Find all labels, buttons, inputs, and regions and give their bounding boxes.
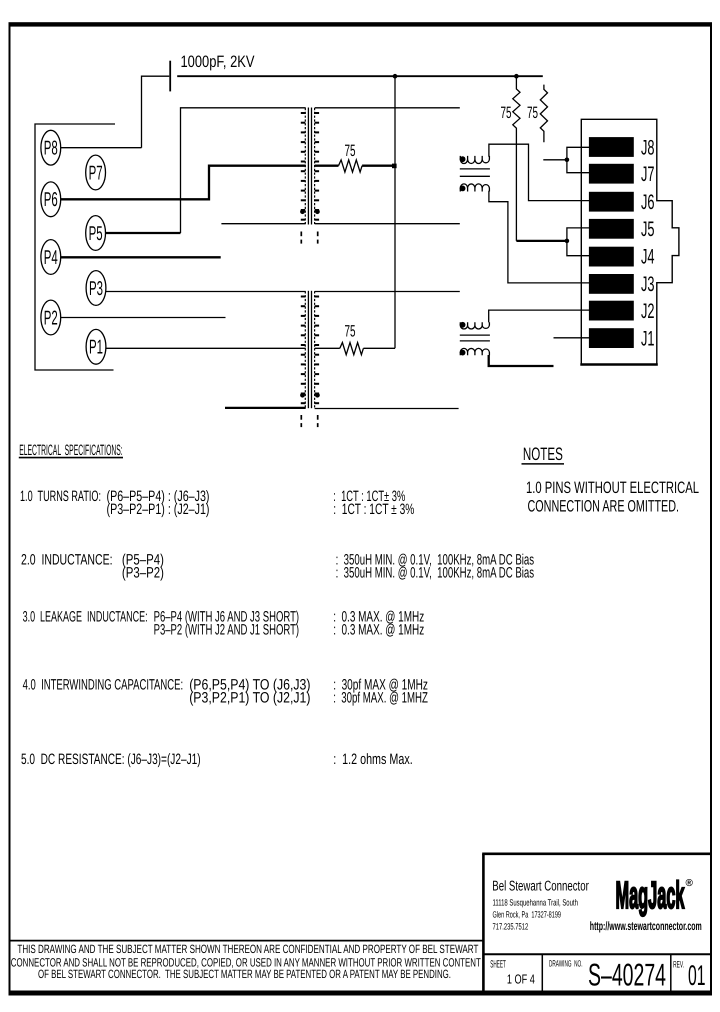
svg-text:REV.: REV.	[673, 960, 684, 970]
wire P5 riser vertical	[181, 108, 306, 233]
svg-text:4.0 INTERWINDING CAPACITANCE:: 4.0 INTERWINDING CAPACITANCE:	[23, 676, 184, 693]
svg-text:J2: J2	[641, 300, 655, 323]
svg-text:01: 01	[688, 960, 706, 992]
choke L2 bottom winding	[460, 348, 490, 355]
pin P1	[86, 329, 106, 364]
svg-text:717.235.7512: 717.235.7512	[493, 922, 529, 932]
transformer T1	[300, 108, 320, 244]
choke L1 top winding	[460, 156, 490, 164]
wire J8/J7 stub	[543, 159, 567, 161]
svg-text:75: 75	[345, 323, 356, 341]
wire T1 secondary top	[315, 107, 460, 109]
ELECTRICAL SPECIFICATIONS heading	[19, 442, 123, 459]
pin P7	[86, 155, 106, 190]
pin P5	[86, 216, 106, 251]
pin P3	[86, 271, 106, 306]
svg-text:THIS DRAWING AND THE SUBJECT M: THIS DRAWING AND THE SUBJECT MATTER SHOW…	[17, 942, 478, 956]
svg-text:ELECTRICAL SPECIFICATIONS:: ELECTRICAL SPECIFICATIONS:	[19, 442, 123, 459]
choke L2 core	[460, 335, 490, 341]
spec 5.0 dc resistance	[21, 751, 413, 768]
svg-text:75: 75	[527, 104, 538, 122]
wire L2 top to J2	[489, 310, 589, 322]
svg-text:P5: P5	[89, 223, 103, 245]
connector pin J1	[589, 328, 634, 348]
svg-text:J7: J7	[641, 163, 655, 186]
svg-text:2.0 INDUCTANCE:: 2.0 INDUCTANCE:	[21, 552, 113, 569]
svg-text:1.0 PINS WITHOUT ELECTRICAL: 1.0 PINS WITHOUT ELECTRICAL	[526, 479, 699, 497]
spec 1.0 turns ratio	[20, 488, 414, 518]
svg-text:5.0 DC RESISTANCE: (J6–J3)=(J: 5.0 DC RESISTANCE: (J6–J3)=(J2–J1)	[21, 751, 201, 768]
spec 4.0 interwinding capacitance	[23, 676, 428, 706]
connector pin J5	[589, 219, 634, 239]
svg-text:1.0 TURNS RATIO:: 1.0 TURNS RATIO:	[20, 488, 101, 505]
node square junction R1/vertical	[392, 164, 397, 169]
choke L2 top winding	[460, 322, 490, 329]
connector pin J7	[589, 164, 634, 184]
wire T1 secondary bottom	[315, 223, 460, 225]
svg-text:75: 75	[345, 142, 356, 160]
choke L1 core	[460, 169, 490, 176]
svg-text:P8: P8	[44, 138, 58, 160]
svg-text:: 1.2 ohms Max.: : 1.2 ohms Max.	[333, 751, 413, 768]
svg-text:1000pF, 2KV: 1000pF, 2KV	[181, 53, 255, 71]
svg-text:J4: J4	[641, 246, 655, 269]
svg-text:1 OF 4: 1 OF 4	[507, 971, 535, 986]
pin P6	[41, 182, 61, 217]
note 1.0 text	[526, 479, 699, 515]
wire P8 to capacitor riser	[61, 147, 142, 149]
transformer T2	[300, 291, 320, 427]
node junction J5/J4 tie	[565, 239, 570, 244]
wire T1 primary bottom	[221, 223, 305, 225]
svg-text:CONNECTION ARE OMITTED.: CONNECTION ARE OMITTED.	[528, 498, 680, 516]
disclaimer box	[11, 940, 484, 942]
pin P8	[41, 130, 61, 165]
wire R3 to J5/J4 tie	[516, 240, 567, 242]
svg-text:(P3–P2): (P3–P2)	[122, 565, 164, 582]
wire L1 bottom to J3	[489, 191, 589, 283]
connector pin J8	[589, 137, 634, 157]
svg-text:OF BEL STEWART CONNECTOR. THE: OF BEL STEWART CONNECTOR. THE SUBJECT MA…	[38, 967, 451, 981]
svg-text:Bel Stewart Connector: Bel Stewart Connector	[492, 878, 589, 894]
svg-text:Glen Rock, Pa 17327-8199: Glen Rock, Pa 17327-8199	[493, 910, 562, 920]
wire center vertical	[394, 76, 396, 348]
svg-text:: 0.3 MAX. @ 1MHz: : 0.3 MAX. @ 1MHz	[333, 622, 424, 639]
capacitor C1 plate	[169, 61, 171, 92]
connector J body	[581, 119, 679, 364]
svg-text:P3: P3	[89, 278, 103, 300]
wire J8/J7 bracket	[567, 147, 589, 172]
wire P2 stub	[61, 317, 226, 319]
wire L1 top to J6	[489, 144, 589, 200]
svg-text:P7: P7	[89, 162, 103, 184]
svg-text:(P3,P2,P1) TO (J2,J1): (P3,P2,P1) TO (J2,J1)	[189, 689, 310, 706]
wire P3 to T2 top	[106, 291, 306, 293]
P pin header box	[35, 124, 115, 370]
disclaimer text	[11, 942, 481, 981]
resistor R3 75 (vertical, on junction)	[501, 76, 521, 241]
wire P6 to T1 center tap	[61, 166, 306, 200]
connector pin J6	[589, 192, 634, 212]
wire T2 primary bottom	[225, 407, 306, 409]
title block frame	[482, 854, 711, 993]
MagJack logo	[616, 875, 694, 917]
node junction top rail / center vertical	[393, 74, 398, 79]
svg-text:®: ®	[686, 878, 694, 889]
wire P1 to T2 center tap	[106, 347, 306, 349]
svg-text:P2: P2	[44, 307, 58, 329]
svg-text:P6: P6	[44, 189, 58, 211]
svg-text:J1: J1	[641, 327, 655, 350]
svg-text:11118 Susquehanna Trail, South: 11118 Susquehanna Trail, South	[493, 898, 578, 908]
NOTES heading	[522, 444, 565, 464]
svg-text:: 350uH MIN. @ 0.1V, 100KHz,: : 350uH MIN. @ 0.1V, 100KHz, 8mA DC Bias	[336, 565, 534, 582]
choke L1 bottom winding	[460, 184, 490, 192]
svg-text:DRAWING NO.: DRAWING NO.	[549, 958, 583, 968]
resistor R4 75 (vertical, floating)	[527, 85, 548, 143]
svg-text:SHEET: SHEET	[490, 959, 506, 971]
wire J5/J4 bracket	[567, 228, 589, 256]
connector pin J2	[589, 301, 634, 321]
node junction J8/J7 tie	[565, 158, 570, 163]
pin P2	[41, 300, 61, 335]
svg-text:P4: P4	[44, 247, 58, 269]
spec 2.0 inductance	[21, 552, 534, 582]
wire top rail	[177, 75, 543, 77]
svg-text:P1: P1	[89, 337, 103, 359]
svg-text:J3: J3	[641, 273, 655, 296]
svg-text:J5: J5	[641, 218, 655, 241]
svg-text:S–40274: S–40274	[588, 956, 666, 992]
wire T2 secondary top	[315, 291, 460, 293]
spec 3.0 leakage inductance	[23, 609, 425, 639]
node junction top rail / resistor R3	[514, 74, 519, 79]
svg-text:http://www.stewartconnector.co: http://www.stewartconnector.com	[590, 919, 702, 933]
svg-text:3.0 LEAKAGE INDUCTANCE:: 3.0 LEAKAGE INDUCTANCE:	[23, 609, 148, 626]
connector pin J3	[589, 274, 634, 294]
resistor R1 75 (T1 center tap)	[315, 142, 392, 172]
svg-text:J6: J6	[641, 191, 655, 214]
svg-text:J8: J8	[641, 137, 655, 160]
wire P4 stub	[61, 256, 221, 258]
resistor R2 75 (T2 center tap)	[315, 323, 395, 355]
wire L2 bottom stub	[489, 355, 554, 366]
wire P5 riser to T1 top	[106, 232, 181, 234]
svg-text:: 30pf MAX. @ 1MHZ: : 30pf MAX. @ 1MHZ	[333, 689, 428, 706]
wire J1 stub	[554, 337, 590, 339]
wire riser P8 up	[142, 76, 170, 148]
svg-text:: 1CT : 1CT ± 3%: : 1CT : 1CT ± 3%	[333, 501, 414, 518]
pin P4	[41, 240, 61, 275]
svg-text:75: 75	[501, 104, 512, 122]
connector pin J4	[589, 247, 634, 267]
svg-text:P3–P2 (WITH J2 AND J1 SHORT): P3–P2 (WITH J2 AND J1 SHORT)	[154, 622, 300, 639]
wire T2 secondary bottom	[315, 408, 459, 410]
svg-text:(P3–P2–P1) : (J2–J1): (P3–P2–P1) : (J2–J1)	[107, 501, 210, 518]
svg-text:MagJack: MagJack	[616, 875, 685, 917]
svg-text:NOTES: NOTES	[523, 444, 563, 464]
